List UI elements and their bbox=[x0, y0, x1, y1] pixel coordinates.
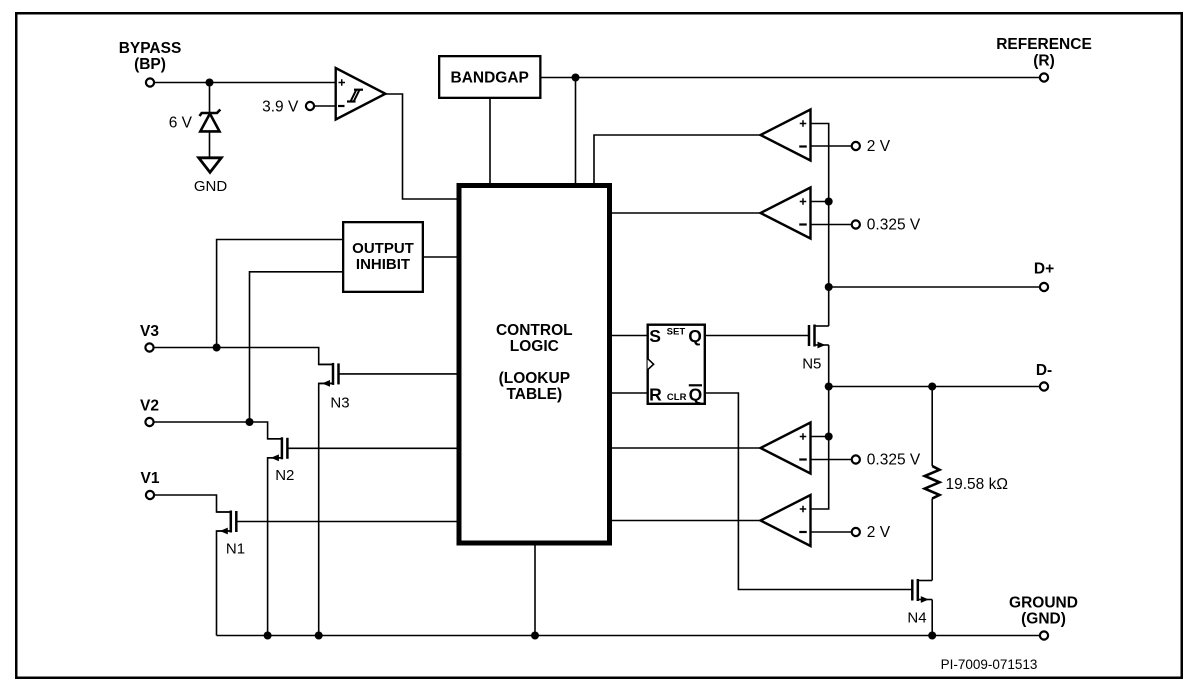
svg-text:CLR: CLR bbox=[667, 392, 687, 403]
svg-text:N1: N1 bbox=[226, 541, 245, 558]
svg-text:R: R bbox=[649, 385, 662, 405]
svg-text:19.58 kΩ: 19.58 kΩ bbox=[946, 476, 1008, 493]
svg-text:GROUND: GROUND bbox=[1009, 595, 1078, 612]
svg-text:LOGIC: LOGIC bbox=[510, 338, 559, 355]
svg-text:BANDGAP: BANDGAP bbox=[451, 70, 529, 87]
svg-text:0.325 V: 0.325 V bbox=[867, 452, 921, 469]
svg-text:BYPASS: BYPASS bbox=[119, 40, 182, 57]
svg-text:CONTROL: CONTROL bbox=[496, 322, 573, 339]
svg-text:2 V: 2 V bbox=[867, 524, 891, 541]
svg-text:(R): (R) bbox=[1033, 53, 1055, 70]
svg-text:(GND): (GND) bbox=[1021, 611, 1066, 628]
svg-text:TABLE): TABLE) bbox=[506, 386, 562, 403]
svg-text:V2: V2 bbox=[140, 398, 159, 415]
svg-text:Q: Q bbox=[688, 326, 702, 346]
svg-text:N4: N4 bbox=[907, 610, 926, 627]
svg-text:OUTPUT: OUTPUT bbox=[352, 240, 414, 257]
svg-text:S: S bbox=[649, 326, 661, 346]
svg-text:N5: N5 bbox=[802, 356, 821, 373]
svg-text:D+: D+ bbox=[1034, 261, 1054, 278]
svg-text:(BP): (BP) bbox=[134, 56, 166, 73]
svg-text:GND: GND bbox=[194, 178, 228, 195]
svg-text:N2: N2 bbox=[275, 467, 294, 484]
svg-text:3.9 V: 3.9 V bbox=[262, 99, 299, 116]
svg-text:2 V: 2 V bbox=[867, 138, 891, 155]
svg-text:V3: V3 bbox=[140, 323, 159, 340]
svg-text:N3: N3 bbox=[330, 395, 349, 412]
svg-text:SET: SET bbox=[667, 327, 686, 338]
svg-text:D-: D- bbox=[1036, 362, 1052, 379]
svg-text:Q: Q bbox=[689, 385, 703, 405]
svg-text:6 V: 6 V bbox=[169, 115, 193, 132]
svg-text:(LOOKUP: (LOOKUP bbox=[499, 370, 570, 387]
svg-text:0.325 V: 0.325 V bbox=[867, 217, 921, 234]
svg-text:INHIBIT: INHIBIT bbox=[356, 256, 410, 273]
svg-text:PI-7009-071513: PI-7009-071513 bbox=[941, 657, 1038, 672]
svg-text:V1: V1 bbox=[141, 470, 160, 487]
svg-text:REFERENCE: REFERENCE bbox=[996, 36, 1092, 53]
